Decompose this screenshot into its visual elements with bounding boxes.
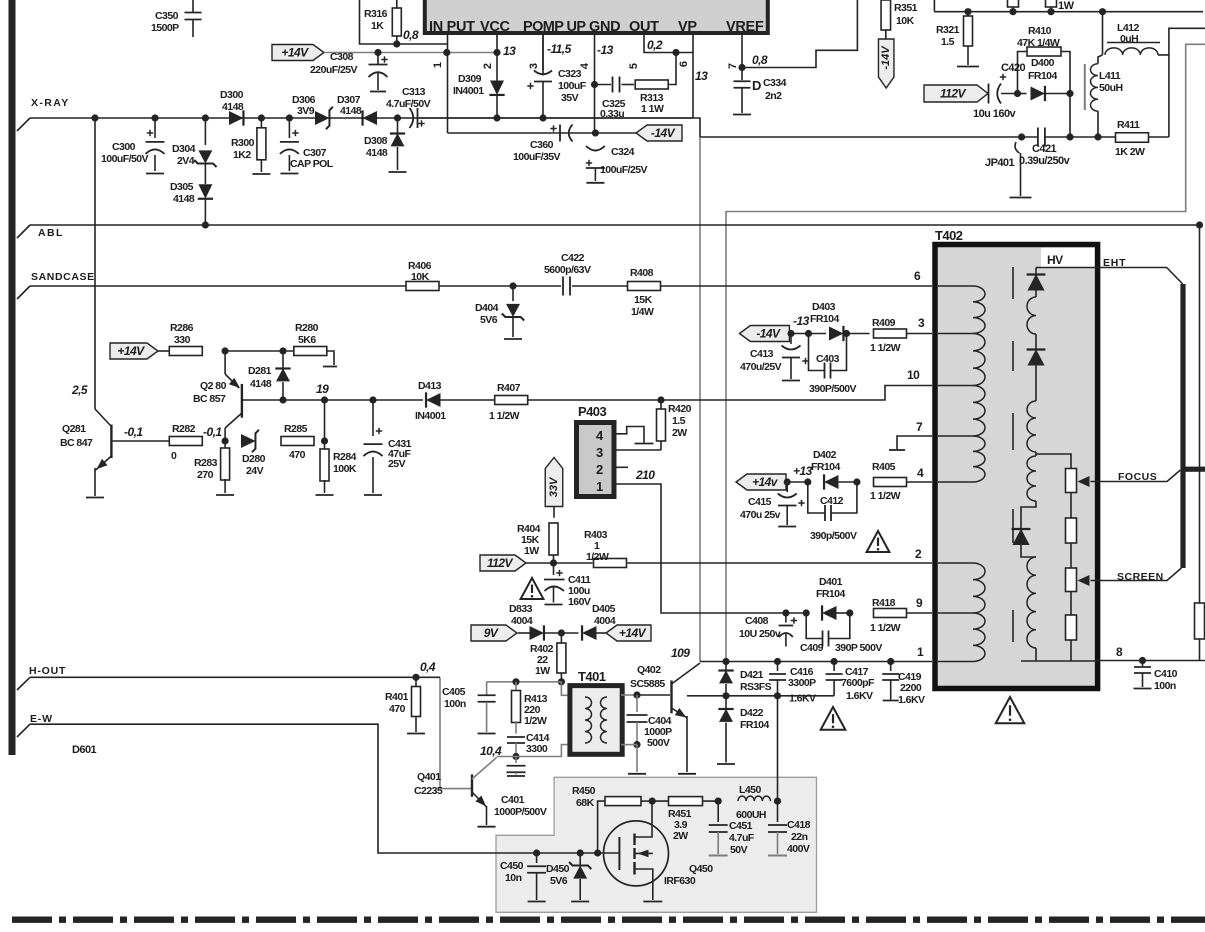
node D304 <box>202 114 209 121</box>
resistor ABL sense <box>1195 603 1205 639</box>
svg-text:1500P: 1500P <box>151 22 179 34</box>
svg-text:HV: HV <box>1047 253 1063 267</box>
svg-text:-0,1: -0,1 <box>124 425 143 439</box>
wire pin1 <box>447 35 449 53</box>
svg-text:7: 7 <box>916 420 923 434</box>
wire top rail <box>934 11 1203 13</box>
T402 tap 7 <box>938 435 973 437</box>
svg-text:D422: D422 <box>740 707 764 719</box>
flag +14v row4 <box>736 474 786 490</box>
ground D450 <box>571 901 589 903</box>
wire E-W <box>30 724 619 853</box>
wire H-OUT to Q401 <box>440 677 471 788</box>
bar C308 <box>370 91 386 93</box>
svg-text:C415: C415 <box>748 496 772 508</box>
svg-text:2W: 2W <box>673 830 688 842</box>
svg-text:1 1/2W: 1 1/2W <box>489 410 520 422</box>
resistor R408 <box>628 282 661 291</box>
svg-text:68K: 68K <box>576 797 595 809</box>
wire C404 ground <box>636 745 638 772</box>
node D281 top <box>279 347 286 354</box>
svg-text:4: 4 <box>579 62 591 69</box>
node JP401 <box>1018 133 1025 140</box>
svg-text:112V: 112V <box>487 556 513 570</box>
diode D281 <box>282 351 284 368</box>
ground C413 <box>782 380 800 382</box>
svg-text:R411: R411 <box>1117 119 1140 131</box>
svg-text:C324: C324 <box>611 146 635 158</box>
node pin2/+14V <box>493 49 500 56</box>
wire D413-R407 <box>441 399 495 401</box>
svg-text:R410: R410 <box>1028 25 1052 37</box>
svg-text:VP: VP <box>678 19 697 35</box>
resistor R406 <box>406 282 439 291</box>
IC box <box>425 0 768 33</box>
svg-text:C412: C412 <box>820 495 844 507</box>
resistor R413 <box>515 682 517 692</box>
ground Q402 <box>678 773 696 775</box>
svg-text:390P/500V: 390P/500V <box>809 383 857 395</box>
wire pin1 down <box>447 53 449 134</box>
svg-text:H-OUT: H-OUT <box>29 665 66 677</box>
svg-text:R407: R407 <box>497 382 521 394</box>
diode D833 <box>518 632 530 634</box>
svg-text:+13: +13 <box>793 464 813 478</box>
T402 primary winding 9-1 <box>973 613 985 662</box>
svg-text:-11,5: -11,5 <box>547 42 572 56</box>
svg-text:-14V: -14V <box>880 45 892 70</box>
node C404 top <box>633 691 640 698</box>
wire EHT <box>1098 268 1183 285</box>
wire damper link <box>726 695 834 697</box>
svg-text:0,8: 0,8 <box>403 28 419 42</box>
svg-text:C334: C334 <box>763 77 787 89</box>
resistor R451 <box>652 800 669 802</box>
ground C324 <box>586 182 604 184</box>
svg-text:4148: 4148 <box>366 147 388 159</box>
svg-text:1.6KV: 1.6KV <box>789 693 816 705</box>
wire 19 to R284 <box>324 400 326 441</box>
capacitor C334 <box>741 68 743 81</box>
T402 focus pot <box>1066 469 1077 493</box>
wire VP row <box>693 118 1169 137</box>
wire ABL sense <box>1199 225 1201 603</box>
wire +14V row <box>324 52 497 54</box>
ground R283 <box>216 494 234 496</box>
node R450 <box>594 849 601 856</box>
svg-text:D280: D280 <box>242 453 266 465</box>
wire X-RAY to D309 <box>418 117 694 119</box>
svg-text:100n: 100n <box>444 698 466 710</box>
wire +14V to R280 <box>225 350 293 352</box>
wire T401 in <box>561 682 571 696</box>
ground D308 <box>389 171 407 173</box>
svg-text:R316: R316 <box>364 8 388 20</box>
diode D450 (zener 5V6) <box>579 853 581 865</box>
svg-text:R418: R418 <box>872 597 896 609</box>
svg-text:1.6KV: 1.6KV <box>898 694 925 706</box>
node C421/D400 <box>1066 133 1073 140</box>
T402 HV diode 2 <box>1035 334 1037 349</box>
T402 tap 3 <box>938 333 973 335</box>
svg-text:47K 1/4W: 47K 1/4W <box>1017 37 1060 49</box>
capacitor C403 <box>809 334 825 371</box>
svg-text:FR104: FR104 <box>1028 70 1057 82</box>
warning triangle T402 <box>996 697 1025 723</box>
svg-text:1/4W: 1/4W <box>631 306 654 318</box>
svg-text:L450: L450 <box>739 784 761 796</box>
svg-text:P403: P403 <box>578 404 606 419</box>
capacitor C325 <box>612 77 614 93</box>
wire R316 net <box>360 0 448 44</box>
node D400 right <box>1066 90 1073 97</box>
svg-text:0.39u/250v: 0.39u/250v <box>1019 155 1071 167</box>
node D401 left <box>803 609 810 616</box>
svg-text:4148: 4148 <box>250 378 272 390</box>
transistor Q402 SC5885 <box>670 680 672 713</box>
ground Q450 source <box>643 901 662 903</box>
resistor R316 <box>396 0 398 8</box>
resistor R418 <box>874 609 907 618</box>
svg-text:C403: C403 <box>816 353 840 365</box>
svg-text:GND: GND <box>589 19 620 35</box>
diode D422 <box>725 696 727 709</box>
diode D403 <box>791 333 826 335</box>
svg-text:3V9: 3V9 <box>297 105 315 117</box>
svg-text:2200: 2200 <box>900 682 922 694</box>
capacitor C404 <box>636 695 638 712</box>
svg-text:0,2: 0,2 <box>647 38 663 52</box>
resistor R404 <box>549 523 558 555</box>
svg-text:390P 500V: 390P 500V <box>835 642 882 654</box>
node R451/C451 <box>715 798 722 805</box>
T402 bottom rail <box>1021 660 1071 662</box>
T402 tap 9 <box>938 612 973 614</box>
wire Q401 collector <box>497 756 517 758</box>
node C415 <box>784 478 791 485</box>
svg-text:112V: 112V <box>940 87 966 101</box>
transformer T401 <box>570 686 622 755</box>
wire row1 <box>700 661 932 663</box>
wire VP vertical <box>699 137 701 662</box>
svg-text:R285: R285 <box>284 423 308 435</box>
transistor Q281 BC847 <box>110 425 112 459</box>
svg-text:6: 6 <box>914 269 921 283</box>
svg-text:109: 109 <box>671 646 690 660</box>
node D401 right <box>846 609 853 616</box>
svg-text:-13: -13 <box>793 314 810 328</box>
node C416 bottom <box>774 692 781 699</box>
node D833/D405 <box>558 629 565 636</box>
capacitor C324 <box>586 146 605 151</box>
svg-text:R321: R321 <box>936 24 960 36</box>
svg-text:25V: 25V <box>388 458 406 470</box>
node D403 right <box>843 330 850 337</box>
svg-text:+14V: +14V <box>619 626 647 640</box>
T402 screen arrow <box>1078 575 1090 586</box>
ground C300 <box>146 173 164 175</box>
T402 tap 10 <box>938 385 973 387</box>
wire pot 1-2 <box>1070 493 1072 519</box>
wire top rail stub <box>933 0 935 12</box>
capacitor C360 <box>550 128 556 130</box>
svg-text:-14V: -14V <box>651 126 676 140</box>
node C416 <box>774 658 781 665</box>
svg-text:4: 4 <box>917 466 924 480</box>
svg-text:C451: C451 <box>729 820 753 832</box>
svg-text:330: 330 <box>174 334 191 346</box>
flag +14V right <box>606 625 651 641</box>
svg-text:4004: 4004 <box>511 615 533 627</box>
svg-text:3: 3 <box>596 445 603 460</box>
resistor R285 <box>281 437 314 446</box>
ground C431 <box>364 494 382 496</box>
wire Q402 base <box>637 694 670 696</box>
svg-text:5V6: 5V6 <box>550 875 568 887</box>
svg-text:2V4: 2V4 <box>177 155 195 167</box>
resistor R283 <box>224 441 226 449</box>
node OUT/R313 <box>672 49 679 56</box>
diode D306 (zener 3V9) <box>315 111 329 125</box>
svg-text:4004: 4004 <box>594 615 616 627</box>
T402 primary winding 10-7 <box>973 386 985 437</box>
svg-text:R286: R286 <box>170 322 194 334</box>
T402 HV winding 3 <box>1027 456 1036 501</box>
transistor Q450 IRF630 circle <box>604 821 669 886</box>
svg-text:C360: C360 <box>530 139 554 151</box>
resistor R411 <box>1116 133 1149 143</box>
svg-text:C422: C422 <box>561 252 585 264</box>
svg-text:D405: D405 <box>592 603 616 615</box>
bus FOCUS stub <box>1181 467 1205 472</box>
inductor L412 <box>1105 48 1158 55</box>
ground D404 <box>504 338 522 340</box>
node C419 <box>887 658 894 665</box>
diode D402 <box>787 481 808 483</box>
svg-text:470: 470 <box>289 449 306 461</box>
svg-text:3: 3 <box>918 316 925 330</box>
T402 pot 4 <box>1066 615 1077 640</box>
svg-text:2W: 2W <box>672 427 687 439</box>
wire -14V row <box>448 132 637 134</box>
node R282/Q280 <box>222 437 229 444</box>
net ABL entry <box>17 225 30 238</box>
svg-text:0,4: 0,4 <box>420 660 436 674</box>
svg-text:10U 250v: 10U 250v <box>739 628 781 640</box>
svg-text:SANDCASE: SANDCASE <box>31 271 95 283</box>
ground Q401 <box>478 826 496 828</box>
svg-text:R351: R351 <box>894 2 918 14</box>
svg-text:0.33u: 0.33u <box>600 108 624 120</box>
svg-text:-0,1: -0,1 <box>203 425 222 439</box>
svg-text:D400: D400 <box>1031 57 1055 69</box>
node C408 <box>782 609 789 616</box>
wire C325 link <box>595 84 612 86</box>
svg-text:IN4001: IN4001 <box>415 410 446 422</box>
svg-text:C418: C418 <box>787 819 811 831</box>
diode D401 <box>786 612 806 614</box>
svg-text:C450: C450 <box>500 860 524 872</box>
svg-text:BC 857: BC 857 <box>193 393 226 405</box>
ground C307 <box>280 173 298 175</box>
svg-text:D450: D450 <box>546 863 570 875</box>
svg-text:C308: C308 <box>330 51 354 63</box>
ground R284 <box>316 494 334 496</box>
resistor R351 <box>881 0 891 30</box>
capacitor C323 <box>542 35 544 76</box>
diode D421 <box>725 662 727 671</box>
svg-text:0uH: 0uH <box>1120 33 1138 45</box>
flag 33V <box>545 458 563 507</box>
svg-text:D601: D601 <box>72 744 97 756</box>
capacitor C431 <box>372 400 374 436</box>
wire pin2 <box>496 35 498 53</box>
svg-text:470u/25V: 470u/25V <box>740 361 782 373</box>
capacitor C419 <box>890 662 892 672</box>
svg-text:D281: D281 <box>248 365 272 377</box>
svg-text:400V: 400V <box>787 843 810 855</box>
node pin1/+14V <box>443 49 450 56</box>
wire D421 link <box>687 695 725 697</box>
flag +14V left <box>110 343 158 359</box>
svg-text:D401: D401 <box>819 576 843 588</box>
ground C450 <box>528 901 546 903</box>
svg-text:13: 13 <box>695 69 708 83</box>
Q450 channel <box>633 834 635 846</box>
resistor R284 <box>324 441 326 450</box>
svg-text:1: 1 <box>432 62 444 68</box>
svg-text:19: 19 <box>316 382 329 396</box>
node R450/R451 <box>649 798 656 805</box>
resistor R407 <box>495 396 528 405</box>
svg-text:100n: 100n <box>1154 680 1176 692</box>
ground C405 <box>478 733 496 735</box>
node C404 bottom <box>633 741 640 748</box>
svg-text:4148: 4148 <box>222 101 244 113</box>
T402 HV winding 2 <box>1027 401 1036 452</box>
wire pin8 row <box>1098 660 1205 662</box>
svg-text:D833: D833 <box>509 603 533 615</box>
resistor R321 <box>967 12 969 16</box>
svg-text:C409: C409 <box>800 642 824 654</box>
svg-text:1 1/2W: 1 1/2W <box>870 490 901 502</box>
svg-text:7600pF: 7600pF <box>841 677 875 689</box>
transistor Q280 BC857 <box>224 351 226 374</box>
node R285/R284 <box>321 437 328 444</box>
ground C404 <box>628 773 646 775</box>
svg-text:R405: R405 <box>872 461 896 473</box>
svg-text:600UH: 600UH <box>736 809 766 821</box>
svg-text:5V6: 5V6 <box>480 314 498 326</box>
resistor R286 <box>169 347 202 356</box>
node C450 <box>533 849 540 856</box>
svg-text:2: 2 <box>596 462 603 477</box>
svg-text:D402: D402 <box>813 449 837 461</box>
svg-text:C300: C300 <box>112 141 136 153</box>
svg-text:L411: L411 <box>1099 70 1121 82</box>
node C422 <box>509 282 516 289</box>
node R321 <box>964 8 971 15</box>
svg-text:FR104: FR104 <box>740 719 769 731</box>
diode D305 <box>204 164 206 185</box>
wire L412 right <box>1158 28 1205 55</box>
T402 HV top wire <box>1036 267 1098 269</box>
svg-text:C2235: C2235 <box>414 785 443 797</box>
capacitor C350 <box>192 0 194 12</box>
diode D300 <box>229 111 243 125</box>
svg-text:10u 160v: 10u 160v <box>973 108 1017 120</box>
wire P403 pin4 <box>614 427 644 443</box>
diode D404 (zener 5V6) <box>512 286 514 301</box>
T402 primary winding 2-9 <box>973 563 985 613</box>
capacitor C405 <box>486 682 488 695</box>
resistor R403 <box>526 562 593 564</box>
T402 primary winding 6-3 <box>973 286 985 334</box>
svg-text:100uF/35V: 100uF/35V <box>513 151 561 163</box>
svg-text:24V: 24V <box>246 465 264 477</box>
wire P403 pin2 stub <box>614 466 628 468</box>
node D400 left <box>1014 90 1021 97</box>
svg-text:2,5: 2,5 <box>71 383 88 397</box>
svg-text:VREF: VREF <box>726 19 764 35</box>
svg-text:10: 10 <box>907 368 920 382</box>
flag 9V <box>471 625 517 641</box>
capacitor C414 <box>507 736 525 738</box>
svg-text:VCC: VCC <box>480 19 511 35</box>
svg-text:210: 210 <box>635 468 655 482</box>
svg-text:Q402: Q402 <box>637 664 661 676</box>
svg-text:-13: -13 <box>597 43 614 57</box>
diode D280 (zener 24V) <box>241 434 255 448</box>
T402 core dashes <box>1012 267 1014 299</box>
wire 19 row <box>242 399 423 401</box>
ground R321 <box>957 66 979 68</box>
node R300 <box>258 114 265 121</box>
svg-text:D304: D304 <box>172 143 196 155</box>
wire C416 to L450 <box>777 696 779 801</box>
wire R313 up <box>669 53 677 85</box>
svg-text:C410: C410 <box>1154 668 1178 680</box>
wire pot 4-rail <box>1070 640 1072 661</box>
svg-text:1: 1 <box>596 479 603 494</box>
svg-text:9: 9 <box>916 596 923 610</box>
svg-text:35V: 35V <box>561 92 579 104</box>
svg-text:15K: 15K <box>634 294 653 306</box>
wire SANDCASTLE row <box>30 285 561 287</box>
Q450 gate bar <box>618 837 620 870</box>
node C323 <box>539 114 546 121</box>
wire Q281 collector net <box>94 118 96 409</box>
wire 33V down <box>553 507 555 518</box>
svg-text:220uF/25V: 220uF/25V <box>310 64 358 76</box>
inductor L450 <box>738 796 771 801</box>
diode D405 <box>561 632 578 634</box>
capacitor C417 <box>833 662 835 672</box>
T402 tap 4 <box>938 481 973 483</box>
capacitor C410 <box>1142 661 1144 667</box>
capacitor C409 <box>806 613 822 639</box>
wire pot 3-4 <box>1070 592 1072 616</box>
resistor R313 <box>635 80 668 89</box>
wire pin7 VREF <box>741 35 743 68</box>
diode D400 <box>1018 93 1027 95</box>
svg-text:+14V: +14V <box>281 46 309 60</box>
svg-text:1W: 1W <box>524 545 539 557</box>
left bus bar <box>9 0 16 755</box>
node D308 <box>394 114 401 121</box>
node 10-4 <box>512 753 519 760</box>
svg-text:1K2: 1K2 <box>233 149 251 161</box>
